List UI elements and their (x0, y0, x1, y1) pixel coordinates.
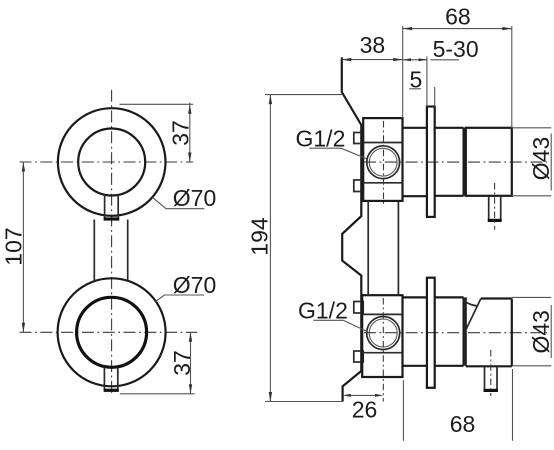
svg-text:26: 26 (352, 397, 378, 423)
svg-text:107: 107 (1, 227, 27, 265)
svg-text:Ø70: Ø70 (173, 272, 216, 298)
svg-text:38: 38 (360, 32, 386, 58)
svg-text:Ø70: Ø70 (173, 185, 216, 211)
svg-text:5-30: 5-30 (433, 36, 479, 62)
svg-text:G1/2: G1/2 (296, 126, 346, 152)
svg-text:68: 68 (445, 3, 471, 29)
svg-text:Ø43: Ø43 (528, 137, 554, 180)
svg-text:37: 37 (168, 120, 194, 146)
svg-text:194: 194 (247, 217, 273, 256)
svg-text:Ø43: Ø43 (528, 310, 554, 353)
svg-text:37: 37 (169, 350, 195, 376)
svg-text:68: 68 (450, 411, 476, 437)
svg-text:G1/2: G1/2 (298, 298, 348, 324)
